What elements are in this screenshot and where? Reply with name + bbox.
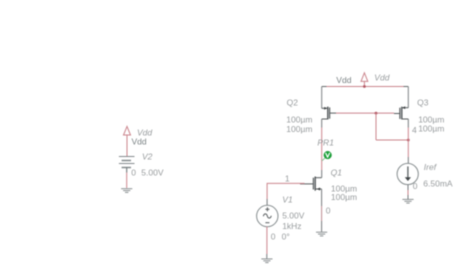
svg-text:0: 0 — [271, 232, 276, 242]
arrow (Iref direction) — [405, 166, 411, 181]
junction dot (gate node) — [375, 112, 378, 115]
svg-text:5.00V: 5.00V — [282, 210, 305, 220]
transistor Q2 (PMOS) — [322, 107, 336, 120]
sine wave (V1) — [263, 214, 271, 218]
wire Iref to ground — [407, 185, 409, 190]
ground (under Q1) — [316, 232, 327, 236]
current source Iref — [397, 163, 418, 184]
junction dot (Q3 drain node) — [407, 139, 410, 142]
wire V1 to Q1 gate — [267, 183, 304, 199]
battery V2 — [119, 157, 135, 168]
svg-text:V1: V1 — [282, 195, 293, 205]
svg-text:100µm: 100µm — [286, 124, 312, 134]
svg-text:Vdd: Vdd — [132, 137, 147, 147]
arrow (Q3 source) — [402, 106, 405, 109]
svg-text:0: 0 — [131, 168, 136, 178]
svg-text:100µm: 100µm — [331, 192, 357, 202]
wire V1 to ground — [266, 227, 268, 254]
svg-text:0°: 0° — [282, 232, 290, 242]
power symbol Vdd (rail) — [361, 73, 368, 87]
wire rail to Q2 source — [321, 87, 323, 109]
wire rail to Q3 source — [407, 87, 409, 108]
wire V2 to ground — [126, 168, 128, 173]
svg-text:4: 4 — [412, 125, 417, 135]
power symbol Vdd (left, above V2) — [124, 126, 131, 156]
svg-text:6.50mA: 6.50mA — [423, 179, 453, 189]
ground (under V1) — [261, 259, 272, 263]
transistor Q3 (PMOS, mirrored) — [394, 107, 408, 120]
wire Q2 gate to Q3 gate — [336, 112, 394, 114]
ground (under V2) — [121, 189, 132, 193]
svg-text:Q1: Q1 — [331, 167, 343, 177]
svg-text:Iref: Iref — [424, 162, 438, 172]
svg-text:0: 0 — [413, 181, 418, 191]
svg-text:5.00V: 5.00V — [141, 168, 164, 178]
svg-text:1kHz: 1kHz — [282, 221, 301, 231]
wire Q1 source to ground — [321, 189, 323, 206]
wire Q2 drain to Q1 drain — [321, 119, 323, 128]
svg-text:0: 0 — [326, 206, 331, 216]
transistor Q1 (NMOS) — [300, 177, 322, 191]
svg-text:Vdd: Vdd — [374, 72, 389, 82]
junction dot (Vdd symbol on rail) — [363, 85, 366, 88]
svg-text:Q2: Q2 — [287, 97, 299, 107]
arrow (Q1 source) — [317, 188, 321, 191]
plus sign (V1) — [265, 207, 269, 211]
wire V1 top pin — [266, 199, 268, 205]
svg-text:Q3: Q3 — [417, 97, 429, 107]
svg-text:100µm: 100µm — [418, 124, 444, 134]
wire gate node to Q3 drain — [376, 139, 408, 141]
source V1 (AC) — [257, 205, 278, 226]
svg-text:1: 1 — [285, 173, 290, 183]
wire Vdd rail (top) — [327, 86, 404, 88]
svg-text:100µm: 100µm — [286, 114, 312, 124]
probe PR1 (green) — [322, 151, 332, 161]
ground (under Iref) — [402, 199, 413, 203]
svg-text:Vdd: Vdd — [336, 75, 351, 85]
svg-text:PR1: PR1 — [317, 138, 334, 148]
minus sign (V1) — [265, 222, 269, 224]
wire gate node down — [375, 113, 377, 140]
svg-text:V2: V2 — [142, 152, 153, 162]
wire Q3 drain to Iref — [407, 119, 409, 128]
arrow (Q2 source) — [324, 107, 327, 110]
